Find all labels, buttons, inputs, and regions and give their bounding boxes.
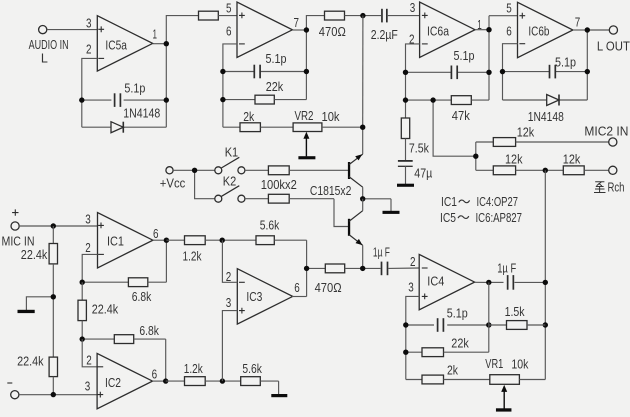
svg-text:22k: 22k	[451, 336, 469, 350]
svg-text:6: 6	[506, 24, 512, 38]
svg-text:2: 2	[86, 42, 92, 56]
svg-text:1.2k: 1.2k	[183, 250, 203, 264]
svg-text:IC1: IC1	[107, 235, 124, 249]
svg-text:2k: 2k	[243, 110, 255, 124]
svg-text:3: 3	[408, 280, 414, 294]
svg-text:6: 6	[226, 24, 232, 38]
svg-text:6: 6	[294, 281, 300, 295]
svg-text:7.5k: 7.5k	[409, 142, 430, 156]
svg-text:22k: 22k	[266, 80, 284, 94]
svg-text:1N4148: 1N4148	[123, 106, 160, 120]
svg-text:47k: 47k	[452, 109, 471, 123]
svg-text:10k: 10k	[511, 357, 529, 371]
svg-text:2: 2	[86, 354, 92, 368]
svg-text:C1815x2: C1815x2	[310, 184, 352, 198]
svg-text:MIC2 IN: MIC2 IN	[584, 124, 628, 138]
svg-text:6: 6	[153, 227, 159, 241]
svg-text:2: 2	[85, 241, 91, 255]
svg-text:3: 3	[226, 296, 232, 310]
svg-text:22.4k: 22.4k	[17, 355, 44, 369]
svg-text:2k: 2k	[447, 364, 459, 378]
svg-text:5: 5	[226, 1, 232, 15]
svg-text:L OUT: L OUT	[597, 40, 630, 54]
svg-text:6.8k: 6.8k	[132, 290, 152, 304]
svg-text:IC5a: IC5a	[105, 38, 127, 52]
svg-text:10k: 10k	[322, 110, 341, 124]
svg-text:6: 6	[152, 367, 158, 381]
svg-text:5.6k: 5.6k	[260, 219, 280, 233]
svg-text:470Ω: 470Ω	[315, 281, 342, 295]
svg-text:47µ: 47µ	[414, 166, 432, 180]
svg-text:100kx2: 100kx2	[261, 178, 297, 192]
svg-text:5.1p: 5.1p	[124, 81, 145, 95]
svg-text:5: 5	[506, 1, 512, 15]
svg-text:+Vcc: +Vcc	[160, 177, 186, 191]
svg-text:VR1: VR1	[485, 357, 503, 371]
svg-text:12k: 12k	[563, 153, 581, 167]
svg-text:5.1p: 5.1p	[266, 52, 287, 66]
svg-text:22.4k: 22.4k	[21, 248, 48, 262]
svg-text:IC6:AP827: IC6:AP827	[476, 211, 523, 225]
svg-text:IC3: IC3	[246, 290, 262, 304]
svg-text:5.6k: 5.6k	[242, 362, 262, 376]
svg-text:6.8k: 6.8k	[139, 324, 159, 338]
svg-text:3: 3	[85, 379, 91, 393]
svg-text:MIC IN: MIC IN	[2, 234, 35, 248]
svg-text:IC5: IC5	[440, 211, 456, 225]
svg-text:K2: K2	[223, 174, 237, 188]
svg-text:12k: 12k	[505, 153, 523, 167]
svg-text:5.1p: 5.1p	[447, 306, 468, 320]
svg-text:3: 3	[86, 17, 92, 31]
svg-text:1.2k: 1.2k	[184, 362, 204, 376]
svg-text:VR2: VR2	[295, 109, 314, 123]
svg-text:470Ω: 470Ω	[319, 25, 346, 39]
svg-text:7: 7	[575, 16, 581, 30]
svg-text:7: 7	[294, 16, 300, 30]
svg-text:2.2µF: 2.2µF	[371, 28, 398, 42]
svg-text:L: L	[41, 52, 48, 66]
svg-text:K1: K1	[225, 145, 239, 159]
svg-text:2: 2	[410, 255, 416, 269]
svg-text:IC2: IC2	[105, 376, 121, 390]
svg-text:AUDIO IN: AUDIO IN	[29, 38, 69, 52]
svg-text:2: 2	[226, 270, 232, 284]
svg-text:IC4:OP27: IC4:OP27	[477, 195, 519, 209]
svg-text:5.1p: 5.1p	[454, 49, 475, 63]
svg-text:IC1: IC1	[441, 195, 457, 209]
svg-text:1µ F: 1µ F	[373, 245, 390, 259]
svg-text:IC4: IC4	[427, 275, 444, 289]
svg-text:IC6b: IC6b	[528, 24, 549, 38]
svg-text:12k: 12k	[517, 126, 535, 140]
svg-text:Rch: Rch	[608, 181, 625, 195]
svg-text:1µ F: 1µ F	[497, 262, 516, 276]
svg-text:1.5k: 1.5k	[505, 305, 526, 319]
svg-text:1: 1	[153, 27, 158, 41]
svg-text:1N4148: 1N4148	[528, 110, 564, 124]
svg-text:5.1p: 5.1p	[555, 55, 576, 69]
svg-text:3: 3	[85, 212, 91, 226]
svg-text:22.4k: 22.4k	[92, 303, 119, 317]
svg-text:IC6a: IC6a	[427, 25, 449, 39]
svg-text:3: 3	[410, 1, 416, 15]
